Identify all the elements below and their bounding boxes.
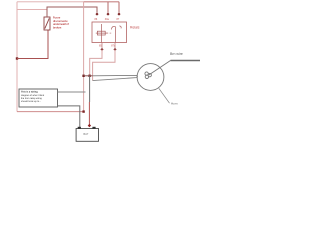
wire note box upper lead: [58, 91, 86, 93]
wire note box lower lead to battery: [58, 106, 80, 129]
svg-text:Relais: Relais: [130, 26, 140, 30]
node dot at bottom feed junction: [82, 110, 84, 112]
wire vertical bus V1 x=83.6: [83, 2, 85, 112]
wire horn upper feed: [84, 75, 93, 77]
wire bottom feed y=111.6 to battery junction: [17, 111, 84, 113]
svg-text:Brn wire: Brn wire: [170, 52, 183, 56]
node dot at 83.6,75.8: [82, 75, 84, 77]
svg-text:This is a wiring: This is a wiring: [21, 91, 38, 94]
wire relay pin 30 drop: [107, 2, 109, 13]
wire fuse top to relay pin 86: [47, 7, 97, 17]
node pin 87 terminal dot: [117, 13, 120, 16]
relay coil: [96, 24, 108, 43]
svg-text:Horn: Horn: [171, 102, 178, 106]
horn H1: [137, 61, 170, 91]
wire from junction to fuse bottom: [17, 30, 48, 59]
label note box text: [21, 91, 45, 104]
leader line to horn label: [159, 88, 170, 103]
wire top feed bus y=1.8 from left bus to relay pins: [17, 1, 119, 3]
node pin 30 terminal dot: [106, 13, 109, 16]
note box: [19, 89, 58, 107]
node pin 87a dot: [113, 48, 116, 51]
node pin 85 dot: [100, 48, 103, 51]
relay switch contact: [111, 26, 121, 43]
node junction on left bus: [16, 57, 18, 59]
node battery terminal dot: [88, 124, 91, 127]
node dot at 89.7,75.8: [88, 75, 90, 77]
wire branch y=9.5 from left bus to fuse: [17, 9, 47, 11]
svg-text:BAT: BAT: [83, 132, 88, 136]
wire left vertical bus x=17: [16, 2, 18, 112]
relay coil-contact link dashes: [107, 32, 112, 34]
svg-text:the horn relay wiring: the horn relay wiring: [21, 97, 42, 100]
wire battery positive drop x=89.7: [89, 76, 91, 102]
label fuse note text: [53, 16, 69, 29]
wire horn lower feed: [93, 77, 138, 81]
svg-text:broken: broken: [53, 27, 62, 30]
battery BT1: [76, 127, 98, 142]
wire relay pin 87a stub: [114, 43, 116, 49]
svg-text:diagram of what I think: diagram of what I think: [21, 94, 45, 97]
svg-text:should hook up to...: should hook up to...: [21, 100, 41, 103]
svg-text:30a: 30a: [105, 18, 110, 21]
relay K1 body: [92, 22, 127, 43]
node pin 86 terminal dot: [95, 13, 98, 16]
wire pin85 to battery drop: [90, 50, 102, 76]
wire relay pin 85 stub: [101, 43, 103, 49]
fuse F1: [44, 17, 50, 30]
wire brn wire to right edge: [171, 60, 201, 62]
wire pin87a to horn lower: [93, 50, 115, 81]
wire relay pin 87 drop: [118, 2, 120, 13]
